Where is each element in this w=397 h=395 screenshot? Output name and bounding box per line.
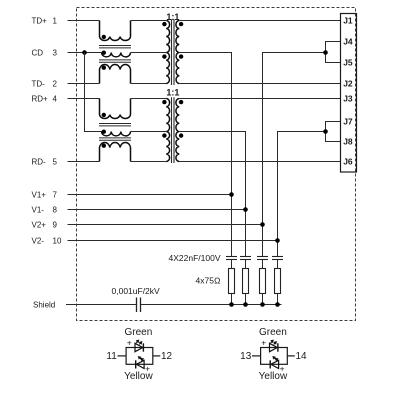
svg-text:14: 14 <box>296 351 308 362</box>
svg-text:V2-: V2- <box>32 236 45 245</box>
wire R1 to shield rail <box>231 294 233 305</box>
transformer T1 secondary winding <box>176 21 179 84</box>
resistor R4 75 ohm <box>275 269 281 294</box>
choke L1 dot c <box>102 66 106 70</box>
wire V1+ pin 7 <box>68 194 232 196</box>
LED D4 yellow diode <box>270 360 278 368</box>
pin label V1+ 7 <box>32 190 58 199</box>
svg-text:12: 12 <box>161 351 173 362</box>
wire RD+ pin 4 <box>68 98 100 100</box>
node V1- junction <box>243 207 248 212</box>
transformer T1 primary winding <box>166 21 169 84</box>
wire V2- pin 10 <box>68 240 278 242</box>
choke L1 core 1 <box>99 46 131 48</box>
svg-text:V2+: V2+ <box>32 220 47 229</box>
choke L2 dot b <box>102 130 106 134</box>
wire T1 secondary bottom to J2 <box>179 83 340 85</box>
svg-text:0,001uF/2kV: 0,001uF/2kV <box>112 286 161 296</box>
svg-text:J7: J7 <box>343 117 353 127</box>
wire choke L2 to T2 bottom <box>131 161 167 163</box>
choke L1 winding a <box>100 21 131 41</box>
pin label V2- 10 <box>32 236 62 245</box>
svg-text:Green: Green <box>259 327 287 338</box>
wire CD vertical link <box>85 53 102 132</box>
capacitor C4 22nF <box>272 257 283 260</box>
wire choke L1 to T1 mid <box>131 52 167 54</box>
capacitor C1 22nF <box>226 257 237 260</box>
svg-text:4X22nF/100V: 4X22nF/100V <box>169 253 221 263</box>
wire choke L1 to T1 bottom <box>131 83 167 85</box>
svg-text:3: 3 <box>53 48 58 57</box>
svg-text:Yellow: Yellow <box>124 371 153 382</box>
wire V2+ pin 9 <box>68 224 263 226</box>
node R3 shield junction <box>260 302 265 307</box>
LED pair 13/14 frame <box>261 348 288 365</box>
node J7/J8 junction <box>323 129 328 134</box>
choke L1 winding b <box>102 53 131 57</box>
LED D1 green light arrows <box>136 340 142 344</box>
wire shield left <box>66 304 137 306</box>
transformer T2 primary winding <box>166 99 169 162</box>
svg-text:4: 4 <box>53 94 58 103</box>
svg-text:J2: J2 <box>343 79 353 89</box>
wire choke L2 to T2 mid <box>131 131 167 133</box>
choke L1 dot a <box>102 35 106 39</box>
svg-text:TD-: TD- <box>32 79 46 88</box>
pin label TD+ 1 <box>32 16 58 25</box>
choke L1 winding c <box>100 65 131 84</box>
choke L2 winding b <box>102 132 131 136</box>
node V2- junction <box>275 238 280 243</box>
capacitor C2 22nF <box>240 257 251 260</box>
pin label V1- 8 <box>32 205 58 214</box>
node R4 shield junction <box>275 302 280 307</box>
pin label V2+ 9 <box>32 220 58 229</box>
wire RD- pin 5 <box>68 161 100 163</box>
svg-text:5: 5 <box>53 157 58 166</box>
transformer T2 dot primary lower <box>162 133 166 137</box>
module outline dashed box <box>77 8 356 321</box>
LED D3 green diode <box>270 343 278 351</box>
transformer T2 dot secondary top <box>179 100 183 104</box>
pin label CD 3 <box>32 48 58 57</box>
lead pin 12 <box>153 355 161 357</box>
LED D4 yellow light arrows <box>273 357 278 361</box>
wire V1- pin 8 <box>68 209 246 211</box>
node R1 shield junction <box>229 302 234 307</box>
wire C4 to R4 <box>277 260 279 269</box>
svg-text:RD-: RD- <box>32 157 47 166</box>
svg-text:7: 7 <box>53 190 58 199</box>
transformer T1 dot secondary top <box>179 22 183 26</box>
svg-text:J8: J8 <box>343 137 353 147</box>
wire T1 secondary top to J1 <box>179 20 340 22</box>
capacitor C3 22nF <box>257 257 268 260</box>
wire T2 center tap to V1- branch <box>179 132 245 257</box>
wire T2 secondary bottom to J6 <box>179 161 340 163</box>
wire shield rail <box>141 304 282 306</box>
lead pin 13 <box>252 355 261 357</box>
transformer T2 dot primary top <box>162 100 166 104</box>
choke L1 dot b <box>102 51 106 55</box>
resistor R1 75 ohm <box>229 269 235 294</box>
transformer T2 secondary winding <box>176 99 179 162</box>
svg-text:+: + <box>261 338 266 348</box>
svg-text:J6: J6 <box>343 157 353 167</box>
transformer T1 dot primary top <box>162 22 166 26</box>
pin label RD+ 4 <box>32 94 58 103</box>
svg-text:11: 11 <box>106 351 117 362</box>
choke L2 dot a <box>102 113 106 117</box>
wire CD pin 3 <box>68 52 102 54</box>
transformer T1 core <box>172 19 175 85</box>
choke L2 core 2 <box>99 138 131 140</box>
choke L2 core 1 <box>99 124 131 126</box>
svg-text:2: 2 <box>53 79 58 88</box>
node V2+ junction <box>260 222 265 227</box>
wire TD- pin 2 <box>68 83 100 85</box>
node CD junction <box>82 50 87 55</box>
wire J7/J8 to V2- branch <box>278 132 326 257</box>
LED D2 yellow diode <box>136 360 144 368</box>
choke L2 winding c <box>100 143 131 162</box>
node J4/J5 junction <box>323 50 328 55</box>
node R2 shield junction <box>243 302 248 307</box>
pin label TD- 2 <box>32 79 58 88</box>
wire choke L2 to T2 top <box>131 98 167 100</box>
wire T2 secondary top to J3 <box>179 98 340 100</box>
LED D1 green diode <box>135 343 143 351</box>
svg-text:RD+: RD+ <box>32 94 49 103</box>
wire R3 to shield rail <box>262 294 264 305</box>
pin label RD- 5 <box>32 157 58 166</box>
svg-text:J1: J1 <box>343 16 353 26</box>
svg-text:1: 1 <box>53 16 58 25</box>
wire R4 to shield rail <box>277 294 279 305</box>
wire J4/J5 to V2+ branch <box>263 53 326 257</box>
svg-text:10: 10 <box>53 236 62 245</box>
svg-text:TD+: TD+ <box>32 16 48 25</box>
wire choke L1 to T1 top <box>131 20 167 22</box>
capacitor C5 0,001uF shield <box>137 298 141 313</box>
resistor R2 75 ohm <box>243 269 249 294</box>
svg-text:J5: J5 <box>343 58 353 68</box>
svg-text:13: 13 <box>240 351 252 362</box>
svg-text:8: 8 <box>53 205 58 214</box>
LED D2 yellow light arrows <box>139 357 144 361</box>
wire C1 to R1 <box>231 260 233 269</box>
transformer T2 dot secondary lower <box>179 133 183 137</box>
resistor R3 75 ohm <box>260 269 266 294</box>
wire TD+ pin 1 <box>68 20 100 22</box>
svg-text:9: 9 <box>53 220 58 229</box>
LED D3 green light arrows <box>271 340 277 344</box>
svg-text:4x75Ω: 4x75Ω <box>196 275 221 285</box>
transformer T1 dot primary lower <box>162 54 166 58</box>
wire J7 J8 stubs <box>326 122 341 142</box>
choke L2 winding a <box>100 99 131 119</box>
transformer T2 core <box>172 97 175 163</box>
svg-text:Shield: Shield <box>33 300 55 309</box>
lead pin 14 <box>287 355 295 357</box>
LED pair 11/12 frame <box>126 348 153 365</box>
wire T1 center tap to V1+ branch <box>179 53 231 257</box>
lead pin 11 <box>118 355 127 357</box>
transformer T1 dot secondary lower <box>179 54 183 58</box>
choke L2 dot c <box>102 144 106 148</box>
wire R2 to shield rail <box>245 294 247 305</box>
svg-text:V1+: V1+ <box>32 190 47 199</box>
svg-text:Yellow: Yellow <box>259 371 288 382</box>
node V1+ junction <box>229 192 234 197</box>
svg-text:CD: CD <box>32 48 44 57</box>
svg-text:V1-: V1- <box>32 205 45 214</box>
wire C2 to R2 <box>245 260 247 269</box>
svg-text:1:1: 1:1 <box>166 88 179 98</box>
svg-text:J4: J4 <box>343 37 353 47</box>
connector box <box>341 14 357 173</box>
choke L1 core 2 <box>99 60 131 62</box>
svg-text:J3: J3 <box>343 94 353 104</box>
svg-text:Green: Green <box>125 327 153 338</box>
wire C3 to R3 <box>262 260 264 269</box>
svg-text:+: + <box>127 338 132 348</box>
wire J4 J5 stubs <box>326 42 341 63</box>
